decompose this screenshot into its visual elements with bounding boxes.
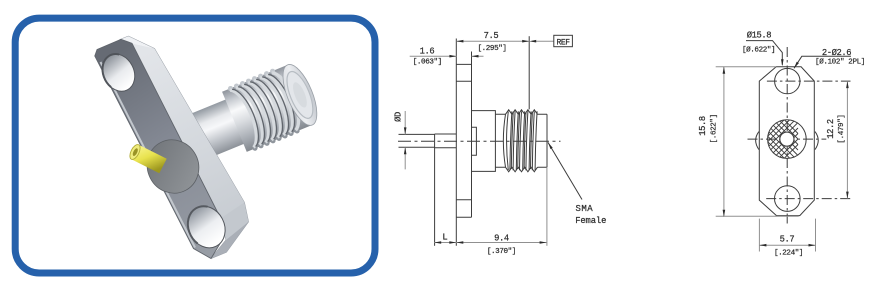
svg-text:1.6: 1.6 — [420, 46, 435, 56]
svg-text:12.2: 12.2 — [826, 119, 836, 139]
svg-text:[.224"]: [.224"] — [774, 250, 803, 258]
svg-text:ØD: ØD — [394, 112, 404, 122]
svg-text:[.479"]: [.479"] — [838, 114, 846, 143]
svg-text:Female: Female — [575, 216, 606, 226]
svg-text:[Ø.102" 2PL]: [Ø.102" 2PL] — [815, 57, 865, 66]
svg-text:[.622"]: [.622"] — [711, 114, 719, 143]
svg-text:9.4: 9.4 — [494, 234, 509, 244]
svg-text:SMA: SMA — [576, 204, 594, 214]
svg-text:5.7: 5.7 — [780, 234, 795, 244]
svg-text:L: L — [442, 233, 447, 243]
svg-text:15.8: 15.8 — [698, 116, 708, 136]
svg-text:REF: REF — [556, 38, 570, 47]
svg-text:[.295"]: [.295"] — [477, 45, 506, 53]
svg-text:2-Ø2.6: 2-Ø2.6 — [822, 48, 851, 58]
svg-text:7.5: 7.5 — [484, 31, 499, 41]
svg-text:[Ø.622"]: [Ø.622"] — [742, 46, 775, 55]
svg-text:[.063"]: [.063"] — [413, 59, 442, 67]
svg-text:Ø15.8: Ø15.8 — [747, 31, 772, 41]
svg-text:[.370"]: [.370"] — [487, 248, 516, 256]
